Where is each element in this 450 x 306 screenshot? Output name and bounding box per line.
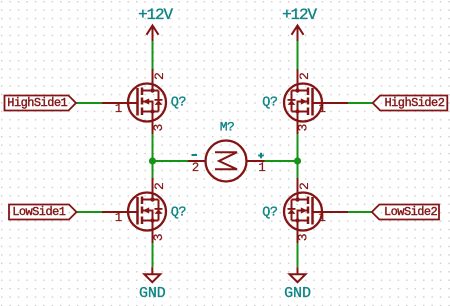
- svg-text:3: 3: [151, 124, 166, 132]
- wire Q4 gate to LowSide2 label: [345, 211, 372, 213]
- motor pin name minus: [192, 154, 198, 156]
- transistor Q3 (low side left): [102, 178, 166, 243]
- junction left node: [149, 157, 156, 164]
- svg-text:HighSide2: HighSide2: [385, 96, 445, 110]
- svg-text:Q?: Q?: [262, 205, 278, 220]
- svg-text:M?: M?: [220, 120, 235, 135]
- svg-text:Q?: Q?: [171, 205, 187, 220]
- junction right node: [294, 157, 301, 164]
- ground symbol left: [144, 267, 160, 282]
- transistor Q2 (high side right, mirrored): [284, 69, 348, 134]
- wire Q2 source to junction to Q4 drain: [297, 134, 299, 179]
- power +12V symbol left: [147, 26, 159, 42]
- global label HighSide2: [373, 96, 448, 111]
- wire Q2 gate to HighSide2 label: [345, 102, 372, 104]
- wire left junction to motor pin 2: [153, 160, 189, 162]
- svg-text:Q?: Q?: [262, 96, 278, 111]
- svg-text:GND: GND: [284, 285, 311, 302]
- svg-text:2: 2: [297, 182, 312, 190]
- wire Q4 source to GND: [297, 243, 299, 268]
- global label HighSide1: [5, 96, 77, 111]
- global label LowSide1: [9, 205, 77, 220]
- svg-text:GND: GND: [139, 285, 166, 302]
- global label LowSide2: [372, 205, 439, 220]
- svg-text:1: 1: [318, 211, 326, 225]
- wire motor pin 1 to right junction: [265, 160, 298, 162]
- motor pin name plus: [258, 153, 264, 159]
- svg-text:1: 1: [115, 102, 123, 116]
- svg-text:LowSide2: LowSide2: [384, 205, 438, 219]
- transistor Q1 (high side left): [102, 69, 166, 134]
- svg-text:1: 1: [258, 161, 266, 175]
- transistor Q4 (low side right, mirrored): [284, 178, 348, 243]
- svg-text:3: 3: [296, 124, 311, 132]
- svg-text:1: 1: [318, 102, 326, 116]
- wire LowSide1 label to Q3 gate: [77, 211, 103, 213]
- svg-text:2: 2: [152, 182, 167, 190]
- svg-text:HighSide1: HighSide1: [7, 96, 67, 110]
- wire +12V left to Q1 drain: [152, 41, 154, 69]
- svg-text:3: 3: [296, 233, 311, 241]
- wire Q3 source to GND: [152, 243, 154, 268]
- wire Q1 source to junction to Q3 drain: [152, 134, 154, 179]
- power +12V symbol right: [292, 26, 304, 42]
- svg-text:2: 2: [152, 72, 167, 80]
- ground symbol right: [290, 267, 306, 282]
- motor M?: [188, 141, 265, 182]
- svg-text:+12V: +12V: [138, 6, 173, 24]
- wire +12V right to Q2 drain: [297, 41, 299, 69]
- svg-text:3: 3: [151, 233, 166, 241]
- svg-text:LowSide1: LowSide1: [12, 205, 66, 219]
- svg-text:2: 2: [192, 161, 200, 175]
- svg-text:1: 1: [115, 211, 123, 225]
- svg-text:Q?: Q?: [171, 96, 187, 111]
- svg-text:2: 2: [297, 72, 312, 80]
- wire HighSide1 label to Q1 gate: [77, 102, 103, 104]
- svg-text:+12V: +12V: [282, 6, 317, 24]
